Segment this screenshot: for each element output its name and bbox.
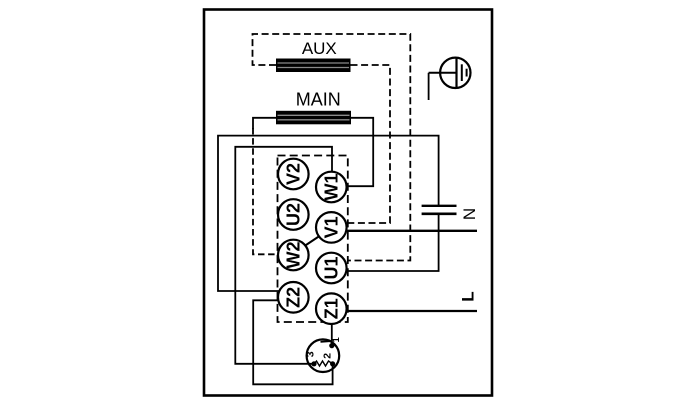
svg-text:V2: V2 (283, 163, 303, 185)
svg-text:V1: V1 (321, 216, 341, 238)
svg-text:U1: U1 (321, 256, 341, 279)
label L (459, 291, 478, 301)
svg-text:Z1: Z1 (321, 298, 341, 319)
wire N line (346, 230, 477, 232)
wire W1 to thermal pin 3 (235, 147, 332, 364)
wire Z1 to thermal pin 1 (331, 324, 333, 346)
svg-text:2: 2 (321, 353, 333, 359)
svg-text:W1: W1 (321, 174, 341, 201)
thermal pin dot 3 (311, 361, 316, 366)
ground (PE) symbol (429, 58, 471, 100)
wire AUX-right to V1 (dashed) (346, 65, 390, 223)
wire MAIN-left lead (253, 118, 276, 129)
wire capacitor-bottom to U1 (333, 214, 439, 271)
svg-text:MAIN: MAIN (296, 89, 341, 109)
svg-text:N: N (460, 208, 479, 220)
terminal U1 (316, 253, 347, 284)
svg-text:AUX: AUX (302, 39, 337, 58)
terminal box (dashed) (278, 156, 348, 323)
svg-text:W2: W2 (283, 242, 303, 269)
svg-text:3: 3 (305, 351, 317, 357)
wire thermal pin 2 to Z2 (253, 300, 332, 384)
thermal pin dot 1 (329, 343, 334, 348)
terminal V1 (316, 212, 347, 243)
label pin 1 (331, 336, 342, 342)
thermal heater zigzag (314, 361, 333, 366)
wire capacitor-top to Z2 (218, 136, 439, 291)
terminal W1 (316, 172, 347, 203)
svg-text:U2: U2 (283, 203, 303, 226)
wire MAIN-right to W1 (347, 118, 374, 186)
terminal Z1 (316, 293, 347, 324)
terminal Z2 (278, 282, 309, 313)
winding AUX (276, 39, 351, 72)
wire AUX-left to U1 (dashed loop) (253, 34, 411, 261)
terminal U2 (278, 199, 309, 230)
svg-text:Z2: Z2 (283, 287, 303, 308)
winding MAIN (276, 89, 351, 124)
wire MAIN-left to W2 (dashed) (253, 128, 279, 254)
label pin 2 (321, 353, 333, 359)
capacitor C (422, 206, 457, 214)
terminal W2 (278, 240, 309, 271)
thermal switch (307, 339, 340, 372)
thermal contact blade (321, 340, 333, 343)
terminal V2 (278, 159, 309, 190)
wire bridge W2 to V1 (303, 235, 321, 247)
svg-text:1: 1 (331, 336, 342, 342)
wire L line (346, 310, 477, 312)
thermal pin dot 2 (330, 361, 335, 366)
svg-text:L: L (459, 291, 478, 301)
label pin 3 (305, 351, 317, 357)
label N (460, 208, 479, 220)
